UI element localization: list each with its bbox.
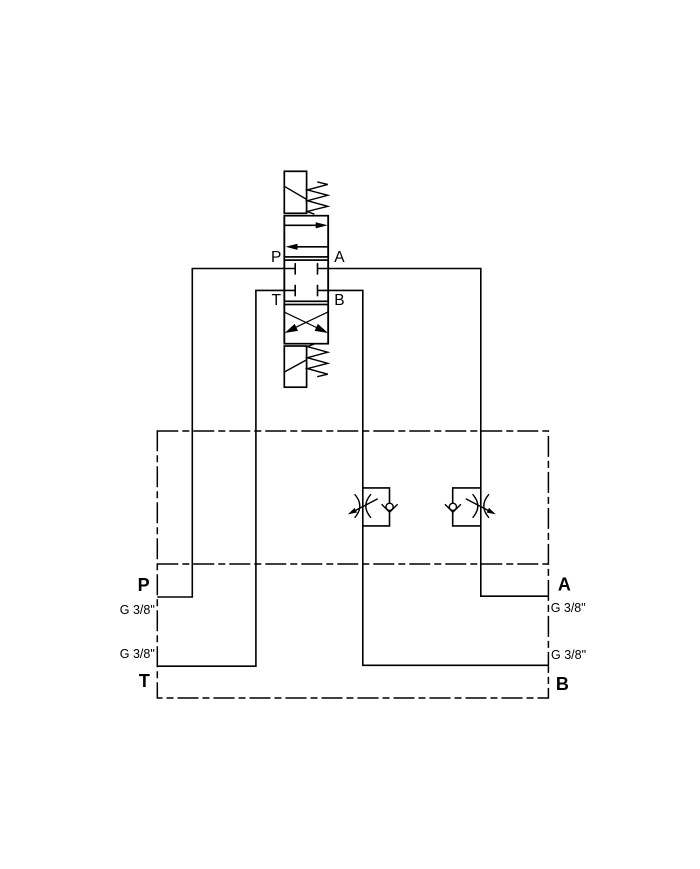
spring bottom [307, 344, 328, 377]
actuator top lever diagonal [284, 186, 306, 199]
check valve right: seat [445, 504, 461, 512]
actuator bottom lever diagonal [285, 360, 307, 372]
actuator bottom box (lever) of valve V1 [284, 346, 306, 387]
valve V1 body: position square 3 (crossed arrows) [284, 305, 328, 344]
valve V1 flow arrow right (P to A) [284, 224, 316, 226]
check valve left: seat [382, 504, 398, 512]
flow control valve left (on B line): bypass box [363, 488, 390, 526]
svg-text:T: T [139, 671, 150, 691]
crossed arrow P to B [285, 312, 319, 328]
svg-text:G 3/8": G 3/8" [551, 601, 586, 615]
check valve right: ball [449, 503, 456, 510]
blocked port bar P side [294, 263, 296, 275]
manifold enclosure (dash-dot box) [157, 431, 548, 698]
svg-text:P: P [271, 249, 281, 266]
svg-text:G 3/8": G 3/8" [120, 647, 155, 661]
throttle left: arcs [355, 494, 360, 518]
manifold section divider [157, 563, 548, 565]
svg-text:G 3/8": G 3/8" [120, 603, 155, 617]
valve V1 body: position square 1 (parallel arrows) [284, 216, 328, 257]
throttle right: arcs [473, 494, 478, 518]
throttle left: adjustment arrow [352, 499, 378, 512]
svg-text:B: B [556, 674, 569, 694]
svg-text:T: T [272, 292, 282, 309]
wire P: valve P port to manifold port P [157, 269, 295, 598]
svg-text:P: P [138, 575, 150, 595]
svg-text:A: A [334, 249, 345, 266]
wire B: valve B port down through flow control to manifold port B [318, 290, 549, 665]
crossed arrow A to T [294, 312, 328, 328]
throttle right: adjustment arrow [466, 499, 492, 512]
valve V1 body: centre position square (all ports blocked) [284, 260, 328, 301]
wire A: valve A port down through flow control to manifold port A [318, 269, 549, 597]
valve V1 flow arrow left (B to T) [297, 246, 328, 248]
blocked port bar T side [294, 285, 296, 297]
svg-text:B: B [334, 292, 344, 309]
actuator top box (lever) of valve V1 [284, 171, 306, 213]
wire T: valve T port to manifold port T [157, 290, 295, 666]
blocked port bar B side [317, 285, 319, 297]
flow control valve right (on A line): bypass box [453, 488, 481, 526]
blocked port bar A side [317, 263, 319, 275]
check valve left: ball [386, 503, 393, 510]
valve V1 body side edges (continuous) [283, 216, 285, 344]
svg-text:G 3/8": G 3/8" [551, 648, 586, 662]
spring top [307, 182, 328, 214]
svg-text:A: A [558, 575, 571, 595]
